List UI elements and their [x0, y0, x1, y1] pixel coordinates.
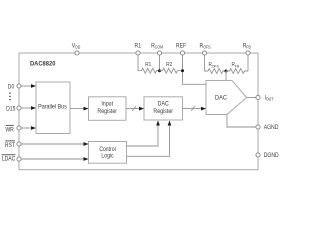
junction node R2-REF	[181, 69, 184, 72]
resistor ROFS	[208, 69, 226, 74]
svg-text:Control: Control	[99, 147, 115, 153]
block Control Logic	[89, 142, 127, 164]
pin IOUT	[256, 95, 260, 99]
wire DAC to AGND	[227, 115, 258, 128]
svg-text:Register: Register	[97, 109, 117, 115]
svg-text:DGND: DGND	[264, 153, 279, 159]
svg-text:Logic: Logic	[101, 153, 113, 159]
svg-text:RFB: RFB	[232, 62, 240, 68]
svg-text:DAC: DAC	[215, 95, 227, 101]
block DAC Register	[144, 97, 183, 120]
svg-text:D0: D0	[8, 84, 14, 90]
svg-text:ROFS: ROFS	[209, 62, 220, 68]
svg-text:Input: Input	[101, 101, 113, 107]
svg-text:VDD: VDD	[72, 43, 81, 50]
resistor R2	[160, 68, 183, 73]
pin REF	[180, 51, 184, 55]
pin D0	[17, 84, 21, 88]
wire D15 to Parallel Bus	[21, 107, 36, 109]
wire ROFS pin drop	[205, 53, 209, 71]
resistor R1	[142, 68, 160, 73]
svg-text:D15: D15	[6, 106, 15, 112]
pin VDD	[75, 51, 79, 55]
svg-text:WR: WR	[5, 127, 13, 133]
svg-text:IOUT: IOUT	[265, 95, 274, 102]
block Input Register	[89, 97, 127, 121]
svg-text:R1: R1	[145, 62, 151, 68]
pin AGND	[256, 125, 260, 129]
pin LDAC	[17, 157, 21, 161]
pin ROFS	[202, 51, 206, 55]
block Parallel Bus	[36, 82, 70, 134]
svg-text:R1: R1	[135, 43, 141, 49]
wire RST to Control Logic	[21, 143, 88, 145]
wire Control Logic to DAC Register clk1	[127, 121, 159, 146]
svg-text:RCOM: RCOM	[151, 43, 163, 50]
wire REF net to DAC	[183, 53, 207, 84]
bus slash	[191, 106, 195, 111]
bus wire Parallel Bus to Input Register	[70, 108, 88, 110]
wire RCOM pin drop	[159, 53, 161, 71]
svg-text:RFB: RFB	[243, 43, 252, 50]
pin RST	[17, 142, 21, 146]
svg-text:Parallel Bus: Parallel Bus	[38, 104, 67, 110]
wire LDAC to Control Logic	[21, 158, 88, 160]
pin RFB	[246, 51, 250, 55]
svg-text:ROFS: ROFS	[200, 43, 211, 50]
bus wire DAC Register to DAC	[183, 108, 206, 110]
svg-text:DAC8820: DAC8820	[30, 60, 56, 67]
wire R1 pin drop	[138, 53, 142, 71]
resistor RFB	[226, 69, 248, 74]
svg-text:LDAC: LDAC	[2, 156, 16, 162]
wire WR to Parallel Bus	[21, 127, 36, 129]
svg-text:R2: R2	[166, 62, 172, 68]
bus wire Input Register to DAC Register	[126, 108, 144, 110]
wire Control Logic to DAC Register clk2	[127, 121, 170, 156]
wire RFB pin rise	[247, 53, 249, 71]
pin WR	[17, 126, 21, 130]
wire junction drop to DAC	[225, 71, 227, 81]
wire DAC output to IOUT	[247, 97, 259, 99]
DAC converter symbol	[206, 81, 247, 115]
svg-text:REF: REF	[176, 43, 187, 49]
svg-text:DAC: DAC	[158, 101, 169, 107]
junction node ROFS-RFB	[225, 70, 228, 73]
svg-text:RST: RST	[5, 143, 16, 149]
ellipsis D0..D15	[9, 93, 10, 94]
junction node R1-R2-RCOM	[158, 69, 161, 72]
pin R1	[136, 51, 140, 55]
chip outline DAC8820	[19, 53, 258, 170]
pin RCOM	[157, 51, 161, 55]
wire D0 to Parallel Bus	[21, 85, 36, 87]
svg-text:Register: Register	[153, 109, 173, 115]
pin D15	[17, 106, 21, 110]
bus slash	[132, 106, 136, 111]
svg-text:AGND: AGND	[264, 125, 279, 131]
pin DGND	[256, 153, 260, 157]
